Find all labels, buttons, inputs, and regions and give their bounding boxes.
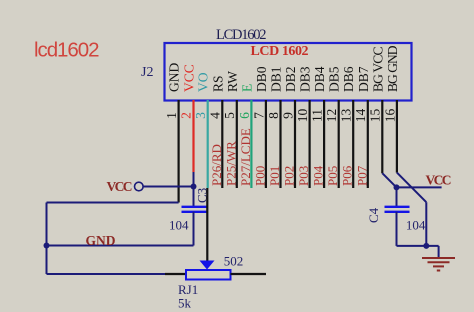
svg-text:VO: VO [196, 72, 211, 92]
svg-text:P03: P03 [296, 166, 311, 186]
svg-text:lcd1602: lcd1602 [34, 39, 100, 62]
pin 9 wire [294, 100, 296, 188]
svg-text:DB0: DB0 [254, 66, 269, 92]
svg-text:104: 104 [406, 218, 426, 233]
wire pin1 horizontal to left rail [47, 202, 179, 204]
svg-text:LCD1602: LCD1602 [216, 27, 267, 43]
pin 13 wire [352, 100, 354, 188]
capacitor C3 bottom plate [182, 211, 207, 213]
svg-text:P07: P07 [354, 165, 369, 186]
wire pin2 to node (navy) [193, 172, 195, 187]
pin 11 wire [323, 100, 325, 188]
wire diagonal to bottom node (navy vertical) [425, 202, 427, 246]
ground symbol bar 2 [428, 261, 450, 263]
potentiometer RJ1 body [186, 270, 231, 280]
wire pin15 diagonal to VCC node [382, 173, 396, 187]
pin 14 wire [367, 100, 369, 188]
pin 6 wire (green vertical) [250, 100, 252, 188]
svg-text:8: 8 [266, 112, 281, 119]
svg-text:DB2: DB2 [283, 66, 298, 92]
pin 1 wire (black vertical) [178, 100, 180, 203]
svg-text:2: 2 [179, 112, 194, 119]
svg-text:P25/WR: P25/WR [223, 141, 238, 186]
svg-text:BG GND: BG GND [385, 45, 400, 92]
connector U-box body [165, 43, 412, 101]
svg-text:GND: GND [86, 233, 116, 248]
svg-text:DB5: DB5 [327, 66, 342, 92]
svg-text:1: 1 [164, 112, 179, 119]
svg-text:DB1: DB1 [269, 66, 284, 92]
svg-text:9: 9 [280, 112, 295, 119]
capacitor C4 top plate [385, 206, 410, 208]
svg-text:VCC: VCC [182, 64, 197, 92]
left vertical rail [46, 203, 48, 275]
svg-text:RS: RS [210, 75, 225, 92]
junction node on left rail [44, 243, 50, 249]
svg-text:16: 16 [382, 109, 397, 123]
pin 5 wire [236, 100, 238, 188]
svg-text:P00: P00 [252, 166, 267, 186]
wire C4 top lead [396, 187, 398, 206]
svg-text:DB6: DB6 [341, 66, 356, 92]
svg-text:14: 14 [353, 109, 368, 123]
pin 4 wire [221, 100, 223, 188]
potentiometer RJ1 right lead (black) [231, 273, 267, 275]
svg-text:VCC: VCC [107, 179, 133, 194]
junction node at C4 top / VCC [394, 184, 400, 190]
svg-text:5k: 5k [178, 296, 192, 311]
svg-text:10: 10 [295, 109, 310, 123]
svg-text:VCC: VCC [426, 173, 452, 188]
ground symbol bar 1 [422, 257, 455, 259]
svg-text:4: 4 [208, 112, 223, 119]
wire C4 bottom lead down [396, 212, 398, 246]
potentiometer wiper wire (black vertical) [206, 188, 208, 261]
svg-text:15: 15 [368, 109, 383, 123]
svg-text:P06: P06 [340, 165, 355, 186]
svg-text:3: 3 [193, 112, 208, 119]
svg-text:P02: P02 [282, 166, 297, 186]
wire C4 bottom to ground stem (horizontal) [397, 245, 439, 247]
potentiometer wiper arrow [200, 261, 215, 270]
VCC terminal circle (left) [135, 182, 144, 191]
svg-text:RW: RW [225, 71, 240, 92]
svg-text:GND: GND [167, 63, 182, 92]
junction node at ground [423, 243, 429, 249]
wire C3 bottom to GND rail [193, 212, 195, 246]
svg-text:P05: P05 [325, 166, 340, 186]
wire pin16 diagonal [397, 173, 426, 203]
junction node at VCC/C3 [191, 184, 197, 190]
ground stem [438, 246, 440, 258]
pin 3 wire (teal vertical) [207, 100, 209, 188]
svg-text:11: 11 [310, 109, 325, 122]
svg-text:6: 6 [237, 112, 252, 119]
capacitor C3 top plate [182, 206, 207, 208]
svg-text:P01: P01 [267, 166, 282, 186]
svg-text:5: 5 [222, 112, 237, 119]
svg-text:7: 7 [251, 112, 266, 119]
svg-text:P04: P04 [311, 165, 326, 186]
svg-text:BG VCC: BG VCC [370, 47, 385, 93]
svg-text:J2: J2 [141, 65, 153, 80]
pin 10 wire [309, 100, 311, 188]
pin 2 wire (red vertical) [192, 100, 194, 172]
svg-text:DB7: DB7 [356, 66, 371, 92]
pin 12 wire [338, 100, 340, 188]
svg-text:C4: C4 [366, 207, 381, 223]
wire VCC node to right [397, 186, 442, 188]
svg-text:104: 104 [169, 218, 189, 233]
svg-text:12: 12 [324, 109, 339, 123]
capacitor C4 bottom plate [385, 211, 410, 213]
pin 7 wire [265, 100, 267, 188]
svg-text:P27/LCDE: P27/LCDE [238, 128, 253, 186]
wire node to C3 top [193, 187, 195, 207]
svg-text:DB3: DB3 [298, 66, 313, 92]
svg-text:LCD 1602: LCD 1602 [251, 44, 309, 59]
svg-text:13: 13 [339, 109, 354, 123]
svg-text:P26/RD: P26/RD [209, 144, 224, 186]
GND rail (navy horizontal) [47, 245, 194, 247]
wire VCC circle to node (navy horizontal) [143, 186, 193, 188]
potentiometer RJ1 left lead (black) [165, 273, 186, 275]
ground symbol bar 3 [433, 265, 444, 267]
ground symbol bar 4 [437, 270, 440, 272]
wire bottom rail to potentiometer left lead [47, 273, 166, 275]
pin 8 wire [279, 100, 281, 188]
pin 16 wire (black vertical) [396, 100, 398, 173]
pin 15 wire (black vertical) [381, 100, 383, 173]
svg-text:502: 502 [224, 253, 244, 268]
svg-text:DB4: DB4 [312, 66, 327, 92]
svg-text:E: E [239, 84, 254, 92]
